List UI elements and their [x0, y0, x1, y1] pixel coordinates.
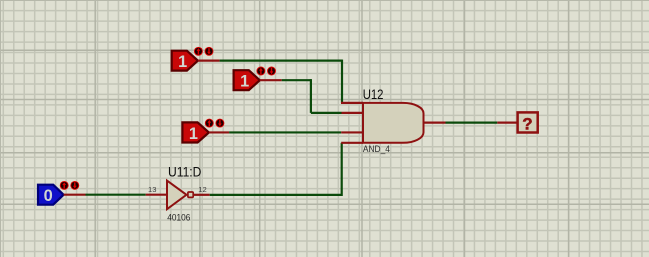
toggle button down for L0 [70, 181, 79, 190]
logic state input L2 value 1 [234, 70, 260, 91]
U12 pin2 [342, 112, 364, 114]
wire L2 horizontal segment [282, 79, 311, 81]
svg-text:U12: U12 [363, 87, 384, 102]
svg-text:0: 0 [44, 187, 53, 205]
wire L2 vertical segment [310, 79, 312, 113]
U12 output pin [424, 121, 446, 123]
pin of L1 [198, 60, 220, 62]
svg-text:1: 1 [189, 125, 198, 143]
wire L2 to U12 pin2 [311, 112, 342, 114]
U12 pin1 [341, 102, 363, 104]
toggle button up for L0 [60, 181, 69, 190]
pin of L0 [64, 194, 86, 196]
pin of L3 [209, 131, 229, 133]
inverter U11:D bubble [188, 192, 193, 197]
logic state input L0 value 0 [38, 185, 64, 205]
wire L1 to U12 pin1 vertical [341, 60, 343, 103]
svg-text:AND_4: AND_4 [363, 144, 390, 154]
svg-text:13: 13 [148, 185, 156, 194]
wire U11 output vertical to U12 pin4 [341, 143, 343, 196]
wire L1 to U12 pin1 horizontal [220, 60, 342, 62]
svg-text:1: 1 [240, 73, 249, 91]
svg-text:U11:D: U11:D [168, 165, 201, 180]
AND gate U12 body [363, 103, 424, 143]
wire U12 output to probe [446, 121, 498, 123]
toggle button up for L1 [194, 47, 203, 56]
svg-text:1: 1 [178, 53, 187, 71]
U12 pin3 [341, 131, 363, 133]
U12 pin4 [341, 142, 363, 144]
toggle button down for L2 [267, 67, 276, 76]
svg-text:40106: 40106 [167, 212, 190, 223]
toggle button up for L2 [256, 67, 265, 76]
inverter U11:D body [167, 181, 187, 210]
wire L0 to U11 input [86, 194, 146, 196]
wire L3 to U12 pin3 [229, 131, 341, 133]
logic probe box [518, 112, 538, 133]
probe pin [497, 121, 517, 123]
pin of L2 [260, 79, 282, 81]
toggle button down for L1 [205, 47, 214, 56]
U11 input pin [146, 194, 167, 196]
toggle button up for L3 [205, 119, 214, 128]
toggle button down for L3 [215, 119, 224, 128]
wire U11 output horizontal [210, 194, 342, 196]
svg-text:?: ? [522, 115, 532, 134]
svg-text:12: 12 [198, 185, 206, 194]
logic state input L1 value 1 [172, 51, 198, 71]
logic state input L3 value 1 [182, 122, 209, 142]
U11 output pin [194, 194, 210, 196]
